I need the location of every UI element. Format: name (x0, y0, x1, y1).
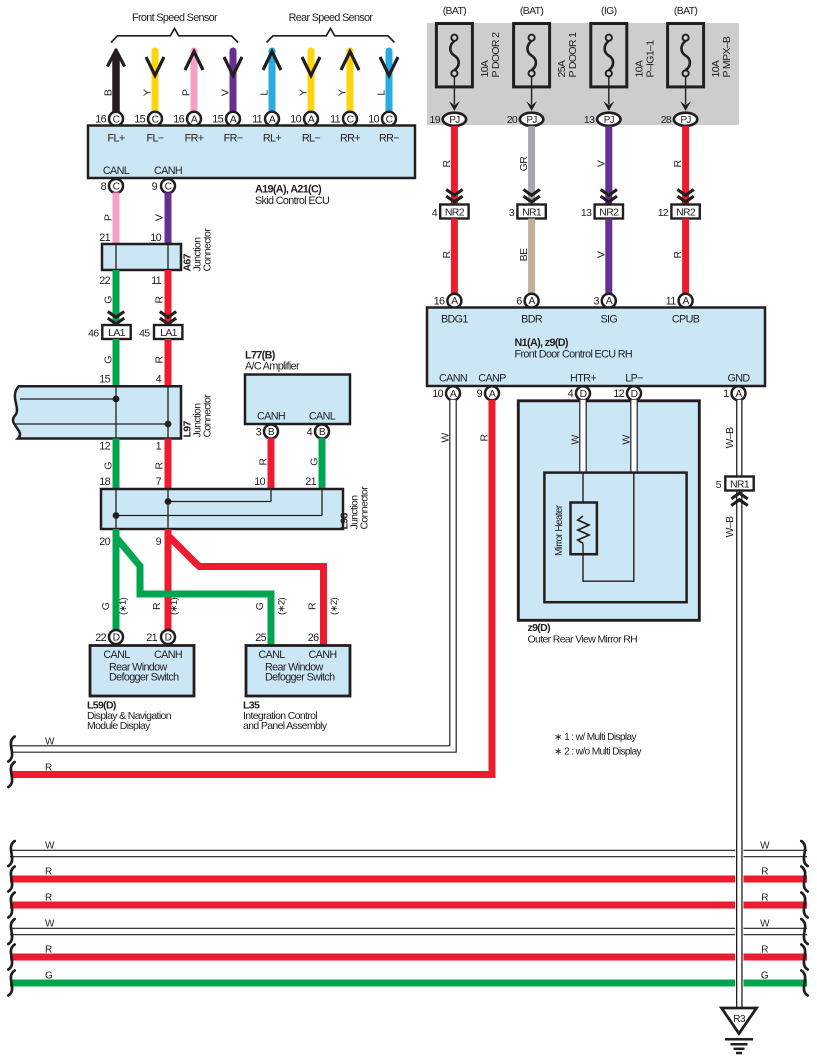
svg-text:A: A (269, 114, 276, 125)
pin 8 (C) CANL (101, 179, 123, 193)
fuse F3 10A P–IG1–1 (591, 5, 657, 87)
wire G A67 to LA1 (113, 270, 120, 325)
squiggle left bus 5 (8, 945, 14, 970)
svg-text:D: D (165, 633, 172, 644)
svg-text:(IG): (IG) (601, 5, 617, 17)
svg-text:CANH: CANH (154, 649, 182, 661)
chevron into NR1 (523, 190, 539, 202)
svg-text:CANH: CANH (154, 165, 182, 177)
svg-text:9: 9 (156, 536, 162, 548)
squiggle left bus 2 (8, 867, 14, 892)
pin 1 (A) GND (723, 386, 745, 400)
switch L59 Rear Window Defogger Switch (90, 646, 194, 697)
svg-text:CANH: CANH (309, 649, 337, 661)
wire W LP- into mirror (630, 400, 638, 473)
svg-text:7: 7 (156, 476, 162, 488)
svg-text:4: 4 (307, 427, 313, 439)
wire bus line 6 G (10, 980, 807, 987)
svg-text:Y: Y (298, 89, 310, 96)
svg-text:W: W (760, 919, 770, 930)
svg-text:C: C (152, 114, 160, 125)
svg-text:CANL: CANL (309, 411, 336, 423)
svg-text:V: V (220, 89, 232, 96)
svg-text:A: A (451, 296, 458, 307)
svg-text:11: 11 (252, 114, 263, 126)
svg-text:P: P (103, 214, 115, 221)
pin 10 (A) RL− (290, 112, 318, 126)
pin 6 (A) terminal BDR (516, 294, 538, 308)
svg-text:D: D (113, 633, 120, 644)
svg-text:A: A (191, 114, 198, 125)
pin 3 (B) CANH (256, 425, 278, 439)
pin 11 (A) RL+ (252, 112, 279, 126)
wire bus line 5 R (10, 954, 807, 961)
svg-text:3: 3 (256, 427, 262, 439)
svg-text:Y: Y (142, 89, 154, 96)
connector LA1 pin 46 (88, 325, 131, 339)
wire bus line 1 W (10, 850, 807, 858)
svg-text:22: 22 (95, 632, 106, 644)
svg-text:25: 25 (255, 632, 266, 644)
wire P speed sensor FR+ (185, 51, 203, 112)
svg-text:8: 8 (101, 181, 107, 193)
svg-text:W–B: W–B (724, 427, 736, 448)
connector PJ pin 20 (507, 113, 544, 126)
svg-text:BDR: BDR (521, 314, 543, 326)
svg-text:13: 13 (584, 114, 595, 126)
svg-text:P DOOR 1: P DOOR 1 (567, 32, 579, 78)
wire GR from PJ 20 to NR1 (528, 126, 535, 205)
svg-text:HTR+: HTR+ (570, 373, 596, 385)
wire label R (*2) (307, 598, 341, 615)
svg-text:15: 15 (212, 114, 223, 126)
svg-text:CANP: CANP (478, 373, 506, 385)
svg-text:(∗2): (∗2) (277, 598, 288, 615)
squiggle R left edge (8, 762, 14, 787)
svg-text:4: 4 (432, 207, 438, 219)
svg-text:G: G (761, 971, 769, 982)
connector PJ pin 28 (661, 113, 698, 126)
svg-text:10: 10 (254, 476, 265, 488)
svg-text:11: 11 (666, 296, 677, 308)
svg-text:12: 12 (99, 441, 110, 453)
pin 22 (D) L59 CANL (95, 630, 123, 644)
svg-text:10: 10 (432, 388, 443, 400)
svg-text:21: 21 (305, 476, 316, 488)
squiggle right bus 2 (801, 867, 807, 892)
svg-text:1: 1 (156, 441, 162, 453)
brace Front Speed Sensor (111, 29, 238, 43)
wire G LA1 to L97 (113, 339, 120, 386)
svg-text:and Panel Assembly: and Panel Assembly (243, 720, 328, 732)
chevron into NR2 (446, 190, 462, 202)
mirror z9(D) Outer Rear View Mirror RH box (518, 401, 699, 621)
svg-text:15: 15 (134, 114, 145, 126)
connector NR2 pin 4 (432, 205, 469, 219)
wire fuse F3 output to connector PJ (608, 77, 610, 105)
svg-text:20: 20 (99, 536, 110, 548)
wire R L98 pin 9 to L59 CANH (165, 529, 172, 631)
svg-text:A: A (308, 114, 315, 125)
wire W CANN down and left to page edge (11, 400, 453, 749)
svg-text:FL+: FL+ (108, 133, 125, 145)
svg-text:NR2: NR2 (445, 206, 465, 218)
label L35 Integration Control and Panel Assembly (243, 700, 328, 733)
svg-text:9: 9 (477, 388, 483, 400)
svg-text:CANL: CANL (258, 649, 285, 661)
wire R CANP down and left to page edge (11, 400, 492, 775)
connector NR1 pin 5 (716, 477, 754, 491)
svg-text:21: 21 (99, 232, 110, 244)
wire BE from NR1 to Front Door Control ECU (528, 219, 535, 295)
svg-text:G: G (45, 971, 53, 982)
wire R from NR2 to Front Door Control ECU (682, 219, 689, 295)
svg-text:R3: R3 (733, 1014, 746, 1025)
svg-text:6: 6 (516, 296, 522, 308)
svg-text:FR−: FR− (224, 133, 243, 145)
wire Y speed sensor FL− (146, 51, 164, 112)
wire R CANH to L98 pin 10 (268, 438, 275, 489)
svg-text:A: A (606, 296, 613, 307)
svg-text:4: 4 (568, 388, 574, 400)
svg-text:Module Display: Module Display (87, 720, 151, 732)
svg-text:R: R (672, 250, 684, 258)
svg-text:CPUB: CPUB (672, 314, 700, 326)
svg-text:D: D (580, 389, 587, 400)
svg-text:A/C Amplifier: A/C Amplifier (245, 361, 300, 373)
svg-text:3: 3 (593, 296, 599, 308)
connector LA1 pin 45 (139, 325, 182, 339)
pin 10 (C) RR− (368, 112, 396, 126)
svg-text:(∗2): (∗2) (329, 598, 340, 615)
pin 3 (A) terminal SIG (593, 294, 615, 308)
wire fuse F2 output to connector PJ (531, 77, 533, 105)
svg-text:NR1: NR1 (730, 478, 750, 490)
svg-text:RL+: RL+ (263, 133, 282, 145)
pin 16 (A) FR+ (173, 112, 201, 126)
svg-text:L: L (259, 90, 271, 96)
svg-text:A: A (450, 389, 457, 400)
junction connector A67 (102, 244, 181, 270)
wire V from NR2 to Front Door Control ECU (605, 219, 612, 295)
svg-text:C: C (386, 114, 394, 125)
fuse F2 25A P DOOR 1 (514, 5, 580, 87)
svg-text:W: W (570, 435, 582, 445)
svg-text:P: P (181, 89, 193, 96)
svg-text:R: R (307, 602, 319, 610)
wire R from PJ 19 to NR2 (451, 126, 458, 205)
svg-text:R: R (45, 945, 52, 956)
chevron out of NR1 (731, 493, 747, 505)
squiggle right bus 5 (801, 945, 807, 970)
svg-text:(BAT): (BAT) (674, 5, 698, 17)
wire heater to LP- (583, 473, 634, 582)
squiggle left bus 3 (8, 893, 14, 918)
svg-text:W: W (621, 435, 633, 445)
svg-text:(BAT): (BAT) (443, 5, 467, 17)
svg-text:L: L (376, 90, 388, 96)
svg-text:W: W (45, 919, 55, 930)
svg-text:46: 46 (88, 327, 99, 339)
wire R branch L98 pin 9 to L35 pin 26 (169, 537, 324, 646)
switch L35 Rear Window Defogger Switch (246, 646, 350, 697)
svg-text:G: G (100, 602, 112, 610)
svg-text:LA1: LA1 (108, 327, 126, 339)
wire fuse F4 output to connector PJ (685, 77, 687, 105)
svg-text:W–B: W–B (724, 516, 736, 537)
svg-text:5: 5 (716, 479, 722, 491)
svg-text:Defogger Switch: Defogger Switch (109, 672, 179, 684)
svg-text:PJ: PJ (527, 115, 538, 126)
svg-text:CANL: CANL (103, 165, 130, 177)
svg-text:Front Speed Sensor: Front Speed Sensor (132, 12, 218, 24)
svg-text:19: 19 (430, 114, 441, 126)
svg-text:R: R (441, 250, 453, 258)
label z9(D) Outer Rear View Mirror RH (528, 622, 638, 646)
svg-text:28: 28 (661, 114, 672, 126)
connector PJ pin 19 (430, 113, 467, 126)
svg-text:NR2: NR2 (676, 206, 696, 218)
junction connector L98 (101, 489, 343, 529)
svg-text:A: A (528, 296, 535, 307)
svg-text:21: 21 (146, 632, 157, 644)
fuse panel (junction block background) (427, 23, 739, 125)
svg-text:z9(D): z9(D) (528, 622, 551, 634)
squiggle left bus 6 (8, 971, 14, 996)
svg-text:FR+: FR+ (185, 133, 204, 145)
svg-text:R: R (761, 866, 768, 877)
svg-text:9: 9 (152, 181, 158, 193)
squiggle right bus 4 (801, 919, 807, 944)
svg-text:GND: GND (727, 373, 750, 385)
svg-text:Defogger Switch: Defogger Switch (265, 672, 335, 684)
svg-text:LP−: LP− (625, 373, 643, 385)
svg-text:3: 3 (509, 207, 515, 219)
pin 11 (C) RR+ (330, 112, 357, 126)
mirror heater element box (571, 503, 597, 555)
svg-text:45: 45 (139, 327, 150, 339)
pin 12 (D) LP- (613, 386, 641, 400)
svg-text:A: A (230, 114, 237, 125)
svg-text:C: C (165, 182, 173, 193)
chevron into NR2 (677, 190, 693, 202)
svg-text:P MPX–B: P MPX–B (721, 36, 733, 77)
svg-text:PJ: PJ (604, 115, 615, 126)
wire label R (*1) (151, 598, 180, 615)
svg-text:RL−: RL− (302, 133, 321, 145)
wire L speed sensor RR− (380, 51, 398, 112)
svg-text:RR+: RR+ (340, 133, 360, 145)
chevron into NR2 (601, 190, 617, 202)
wire W-B GND down to ground R3 (736, 400, 742, 1009)
svg-text:CANN: CANN (439, 373, 467, 385)
squiggle right bus 6 (801, 971, 807, 996)
svg-text:(∗1): (∗1) (169, 598, 180, 615)
svg-text:C: C (113, 182, 121, 193)
svg-text:PJ: PJ (449, 115, 460, 126)
wire Y speed sensor RR+ (341, 51, 359, 112)
squiggle left bus 4 (8, 919, 14, 944)
svg-text:V: V (595, 160, 607, 167)
svg-text:G: G (103, 356, 115, 364)
svg-text:W: W (45, 737, 55, 748)
svg-text:P DOOR 2: P DOOR 2 (490, 32, 502, 78)
svg-text:R: R (45, 892, 52, 903)
svg-text:V: V (154, 214, 166, 221)
svg-text:Connector: Connector (202, 228, 214, 272)
svg-text:26: 26 (308, 632, 319, 644)
svg-text:R: R (761, 892, 768, 903)
wire L speed sensor RL+ (263, 51, 281, 112)
svg-text:B: B (268, 427, 275, 438)
svg-text:13: 13 (581, 207, 592, 219)
ECU N1(A), z9(D) Front Door Control ECU RH (427, 308, 765, 387)
svg-text:10: 10 (150, 232, 161, 244)
svg-text:CANL: CANL (103, 649, 130, 661)
pin 16 (A) terminal BDG1 (434, 294, 462, 308)
svg-text:R: R (672, 159, 684, 167)
svg-text:W: W (440, 433, 452, 443)
svg-text:R: R (761, 945, 768, 956)
pin 9 (C) CANH (152, 179, 175, 193)
svg-text:C: C (113, 114, 121, 125)
svg-text:R: R (154, 295, 166, 303)
squiggle right bus 1 (801, 841, 807, 866)
svg-text:B: B (319, 427, 326, 438)
wire G L97 to L98 (113, 439, 120, 490)
svg-text:SIG: SIG (600, 314, 617, 326)
svg-text:16: 16 (434, 296, 445, 308)
label A67 Junction Connector (182, 228, 214, 272)
svg-text:NR1: NR1 (522, 206, 542, 218)
ECU L77 A/C Amplifier box (245, 375, 350, 425)
wire label G (*2) (254, 598, 288, 615)
wire R from NR2 to Front Door Control ECU (451, 219, 458, 295)
wire HTR+ to mirror heater (582, 473, 584, 516)
wire R L97 to L98 (165, 439, 172, 490)
label L97 Junction Connector (182, 394, 214, 438)
label L77(B) A/C Amplifier (245, 350, 300, 373)
svg-text:CANH: CANH (257, 411, 285, 423)
wire G CANL to L98 pin 21 (319, 438, 326, 489)
wire P CANL to A67 (113, 193, 120, 245)
svg-text:B: B (103, 89, 115, 96)
wire B speed sensor FL+ (107, 48, 124, 113)
wire bus line 3 R (10, 902, 807, 909)
svg-text:R: R (441, 159, 453, 167)
connector NR2 pin 12 (658, 205, 700, 219)
pin 16 (C) FL+ (95, 112, 123, 126)
svg-text:4: 4 (156, 374, 162, 386)
svg-text:12: 12 (613, 388, 624, 400)
pin 15 (C) FL− (134, 112, 162, 126)
wire Y speed sensor RL− (302, 51, 320, 112)
svg-text:N1(A), z9(D): N1(A), z9(D) (515, 337, 569, 349)
svg-text:12: 12 (658, 207, 669, 219)
wire G branch L98 pin 20 to L35 pin 25 (117, 539, 271, 646)
svg-text:R: R (45, 763, 52, 774)
wire W HTR+ into mirror (579, 400, 587, 473)
svg-text:LA1: LA1 (160, 327, 178, 339)
svg-text:11: 11 (151, 275, 162, 287)
label L59(D) Display & Navigation Module Display (87, 700, 172, 733)
svg-text:11: 11 (330, 114, 341, 126)
wire W-B crossing bus lines (735, 840, 743, 1007)
connector NR2 pin 13 (581, 205, 623, 219)
pin 9 (A) CANP (477, 386, 499, 400)
svg-text:FL−: FL− (147, 133, 164, 145)
svg-text:R: R (151, 602, 163, 610)
svg-text:∗ 2 : w/o Multi Display: ∗ 2 : w/o Multi Display (554, 747, 643, 758)
svg-text:Connector: Connector (359, 486, 371, 530)
svg-text:A: A (682, 296, 689, 307)
svg-text:10: 10 (290, 114, 301, 126)
svg-text:16: 16 (173, 114, 184, 126)
svg-text:1: 1 (723, 388, 729, 400)
svg-text:Y: Y (337, 89, 349, 96)
svg-text:∗ 1 : w/ Multi Display: ∗ 1 : w/ Multi Display (554, 732, 638, 743)
svg-text:(∗1): (∗1) (118, 598, 129, 615)
chevron into LA1 45 (160, 312, 176, 324)
label A19(A), A21(C) Skid Control ECU (255, 184, 329, 208)
brace Rear Speed Sensor (267, 29, 395, 43)
pin 4 (B) CANL (307, 425, 329, 439)
wire V from PJ 13 to NR2 (605, 126, 612, 205)
svg-text:20: 20 (507, 114, 518, 126)
svg-text:10: 10 (368, 114, 379, 126)
pin 4 (D) HTR+ (568, 386, 590, 400)
svg-text:Outer Rear View Mirror RH: Outer Rear View Mirror RH (528, 634, 638, 646)
wire bus line 4 W (10, 928, 807, 936)
svg-text:Mirror Heater: Mirror Heater (554, 504, 565, 556)
wire R LA1 to L97 (165, 339, 172, 386)
ground R3 (722, 1008, 757, 1053)
svg-text:Skid Control ECU: Skid Control ECU (255, 195, 329, 207)
svg-text:G: G (103, 296, 115, 304)
svg-text:Front Door Control ECU RH: Front Door Control ECU RH (515, 349, 633, 361)
svg-text:BDG1: BDG1 (441, 314, 468, 326)
svg-text:G: G (254, 602, 266, 610)
ECU A19(A), A21(C) Skid Control ECU (88, 126, 415, 179)
wire V speed sensor FR− (224, 51, 242, 112)
svg-text:R: R (154, 355, 166, 363)
junction connector L97 (13, 386, 181, 438)
svg-text:22: 22 (99, 275, 110, 287)
wire G L98 pin 20 to L59 CANL (113, 529, 120, 631)
squiggle left bus 1 (8, 841, 14, 866)
svg-text:A19(A), A21(C): A19(A), A21(C) (255, 184, 322, 196)
svg-text:G: G (103, 462, 115, 470)
wire R from PJ 28 to NR2 (682, 126, 689, 205)
svg-text:18: 18 (99, 476, 110, 488)
svg-text:A: A (489, 389, 496, 400)
pin 10 (A) CANN (432, 386, 460, 400)
svg-text:PJ: PJ (681, 115, 692, 126)
wire label G (*1) (100, 598, 129, 615)
pin 15 (A) FR− (212, 112, 240, 126)
svg-text:Connector: Connector (202, 394, 214, 438)
svg-text:V: V (595, 251, 607, 258)
fuse F4 10A P MPX–B (668, 5, 734, 87)
svg-text:Rear Speed Sensor: Rear Speed Sensor (289, 12, 374, 24)
label L98 Junction Connector (339, 486, 371, 530)
svg-text:GR: GR (518, 156, 530, 172)
svg-text:(BAT): (BAT) (520, 5, 544, 17)
wire R A67 to LA1 (165, 270, 172, 325)
pin 11 (A) terminal CPUB (666, 294, 693, 308)
svg-text:D: D (631, 389, 638, 400)
wire bus line 2 R (10, 876, 807, 883)
